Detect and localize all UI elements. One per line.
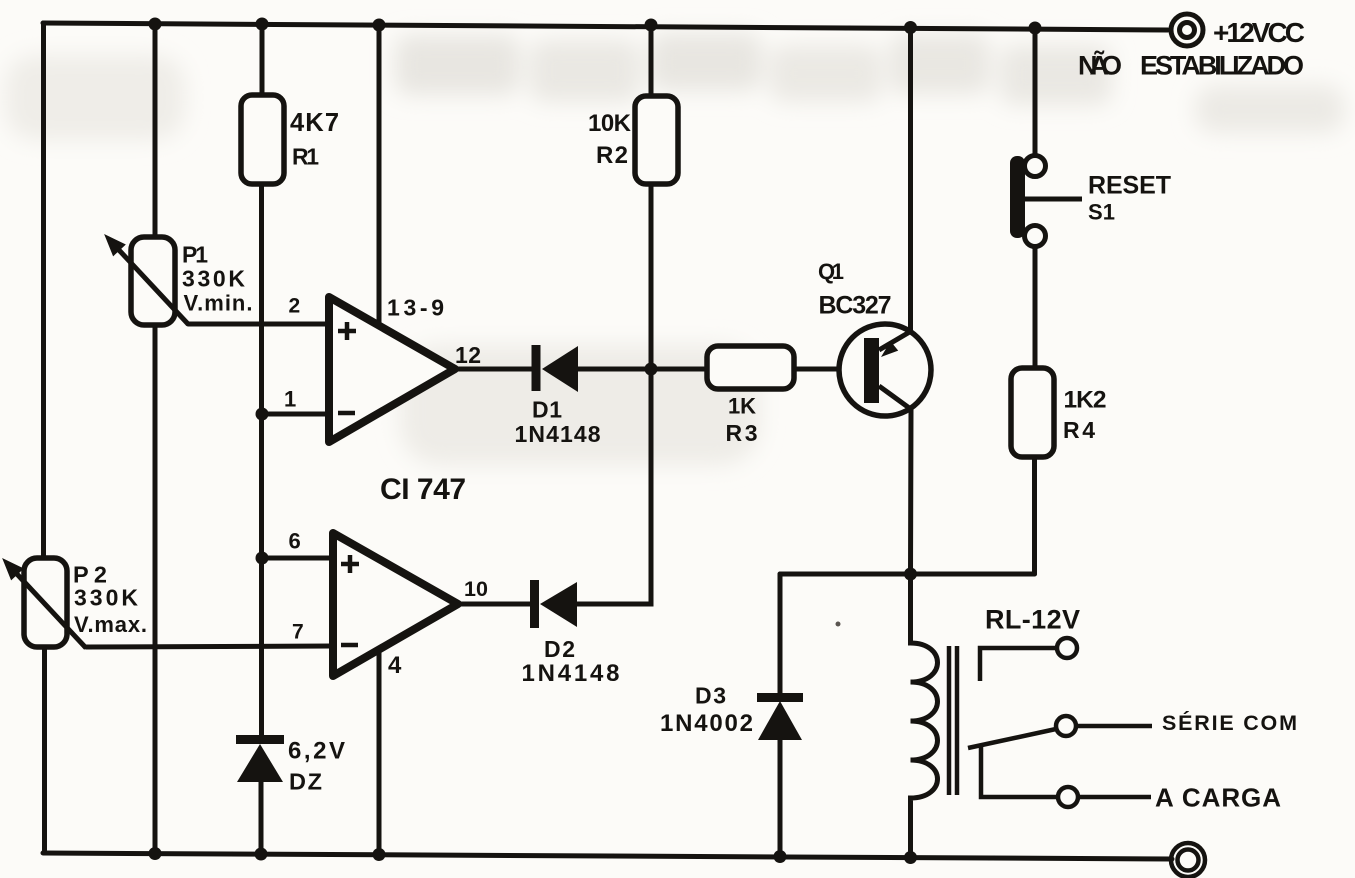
- wire R4 down to relay node row: [1032, 456, 1037, 574]
- node rail-emitter: [904, 21, 917, 34]
- wire P1 column lower segment: [153, 325, 158, 853]
- diode D3 triangle: [758, 701, 802, 740]
- switch S1 RESET pushbutton: [1010, 156, 1082, 247]
- wire D3 to bottom rail: [778, 740, 783, 855]
- wire Q1 emitter column from rail: [908, 27, 913, 332]
- node bottom-P1: [149, 847, 162, 860]
- svg-text:Q1: Q1: [818, 259, 844, 284]
- svg-text:BC327: BC327: [819, 292, 892, 320]
- wire armature pivot stub: [981, 747, 1057, 797]
- wire R1 column: DZ to bottom rail: [259, 781, 264, 854]
- svg-text:ESTABILIZADO: ESTABILIZADO: [1140, 51, 1304, 81]
- svg-text:NÃO: NÃO: [1078, 50, 1122, 81]
- wire switch column rail to S1: [1033, 28, 1038, 157]
- svg-text:1: 1: [284, 387, 296, 412]
- node rail-R2: [645, 19, 658, 32]
- op-amp U1a minus input mark: [338, 411, 355, 416]
- svg-text:V.max.: V.max.: [74, 612, 147, 637]
- zener DZ cathode bar: [236, 735, 284, 744]
- node bottom-DZ: [255, 848, 268, 861]
- svg-text:1K: 1K: [728, 394, 756, 419]
- wire P2 to bottom rail: [42, 646, 47, 853]
- svg-text:6,2V: 6,2V: [288, 738, 345, 765]
- op-amp U1b plus input mark: [341, 555, 359, 573]
- zener DZ triangle: [237, 744, 283, 782]
- svg-text:1N4148: 1N4148: [515, 421, 601, 447]
- wire op-amp U1b output to D2: [456, 602, 534, 607]
- svg-text:6: 6: [289, 529, 301, 554]
- svg-text:DZ: DZ: [289, 769, 322, 795]
- node rail-R1: [256, 18, 269, 31]
- svg-text:330K: 330K: [182, 266, 245, 292]
- wire left vertical from +12V rail down to P2: [41, 23, 46, 559]
- diode D2 triangle: [540, 582, 577, 627]
- resistor R1: [241, 95, 284, 184]
- wire P1 column upper segment: [153, 24, 158, 238]
- wire op-amp pin1 from R1 column: [262, 412, 329, 417]
- node bottom-D3: [774, 850, 787, 863]
- diode D1 cathode bar: [532, 345, 541, 391]
- svg-text:13-9: 13-9: [387, 295, 444, 321]
- terminal ground/return: [1171, 843, 1205, 877]
- diode D1 triangle: [542, 346, 578, 392]
- resistor R4: [1011, 368, 1054, 457]
- node rail-V+: [373, 19, 386, 32]
- svg-text:12: 12: [455, 342, 481, 368]
- wire R1 column: rail to R1: [260, 24, 265, 97]
- svg-text:2: 2: [289, 295, 301, 318]
- wire op-amp pin6 from R1 column: [262, 556, 333, 561]
- svg-text:D3: D3: [695, 683, 726, 709]
- wire bottom rail: [43, 853, 1172, 859]
- potentiometer P1 wiper arrow: [106, 236, 188, 324]
- node bottom-pin4: [373, 848, 386, 861]
- scan speck (decorative): [836, 622, 841, 627]
- op-amp U1a (pins 2,1,12, supply 13-9): [329, 297, 455, 442]
- diode D2 cathode bar: [530, 580, 539, 628]
- wire S1 to R4: [1033, 247, 1038, 369]
- svg-text:4: 4: [388, 652, 402, 679]
- svg-text:R2: R2: [596, 142, 628, 169]
- svg-text:R3: R3: [726, 420, 758, 446]
- transistor Q1 BC327: [839, 324, 931, 416]
- wire relay coil column with coil bumps: [911, 574, 938, 858]
- svg-text:R4: R4: [1063, 417, 1095, 443]
- svg-text:V.min.: V.min.: [184, 291, 253, 316]
- op-amp U1b minus input mark: [341, 643, 358, 648]
- svg-text:D1: D1: [532, 397, 562, 423]
- wire R2 column: rail to R2: [649, 24, 654, 98]
- wire R1 column: R1 to zener DZ: [259, 184, 264, 736]
- svg-text:1K2: 1K2: [1064, 387, 1107, 414]
- svg-text:SÉRIE COM: SÉRIE COM: [1162, 710, 1297, 735]
- op-amp U1b (pins 6,7,10, supply 4): [333, 533, 458, 676]
- wire D2 output corner up to D1 node: [577, 369, 651, 604]
- svg-text:D2: D2: [544, 636, 575, 662]
- svg-text:P1: P1: [182, 242, 208, 268]
- node rail-S1: [1029, 22, 1042, 35]
- node D1-R2-D2: [645, 363, 658, 376]
- wire op-amp U1a V+ stub from rail: [377, 24, 382, 325]
- wire NO contact to A CARGA: [1079, 795, 1151, 800]
- svg-text:10K: 10K: [588, 110, 632, 137]
- node rail-P1: [149, 18, 162, 31]
- relay common contact circle: [1056, 716, 1076, 736]
- svg-text:330K: 330K: [74, 585, 138, 611]
- wire P1 wiper bend to op-amp pin2: [188, 322, 329, 327]
- resistor R3: [707, 346, 794, 389]
- wire R2 column: R2 to node at D1 output: [649, 184, 654, 369]
- svg-text:CI 747: CI 747: [380, 473, 466, 506]
- wire top supply rail: [43, 23, 1168, 30]
- svg-text:R1: R1: [292, 144, 319, 170]
- svg-text:4K7: 4K7: [290, 109, 339, 137]
- svg-text:7: 7: [292, 621, 304, 644]
- op-amp U1a plus input mark: [338, 322, 356, 340]
- relay NO contact circle: [1058, 787, 1078, 807]
- potentiometer P2 wiper arrow: [4, 560, 86, 648]
- resistor R2: [635, 96, 678, 184]
- wire relay node row D3 to R4: [780, 572, 1035, 577]
- wire P2 wiper bend to op-amp pin7: [86, 646, 333, 647]
- relay armature: [968, 729, 1056, 748]
- node collector-R4-D3: [904, 568, 917, 581]
- svg-text:RL-12V: RL-12V: [985, 605, 1080, 635]
- relay coil terminal bracket: [980, 648, 1056, 681]
- potentiometer P1 body: [131, 237, 175, 325]
- wire Q1 collector down to relay node: [908, 409, 914, 574]
- terminal +12V input: [1171, 14, 1203, 46]
- diode D3 cathode bar: [757, 693, 803, 702]
- wire D3 anode stub down from node: [778, 574, 783, 696]
- svg-text:S1: S1: [1088, 200, 1115, 225]
- wire op-amp U1a output to D1: [452, 367, 535, 372]
- wire D1 to R3 with node: [577, 367, 708, 372]
- potentiometer P2 body: [24, 558, 67, 647]
- wire R3 to Q1 base: [793, 367, 866, 372]
- node pin1: [256, 408, 269, 421]
- svg-text:RESET: RESET: [1088, 172, 1171, 200]
- node pin6: [256, 552, 269, 565]
- node bottom-relay: [904, 851, 917, 864]
- relay coil terminal circle: [1057, 638, 1077, 658]
- relay RL-12V core bars: [949, 646, 957, 795]
- svg-text:10: 10: [464, 577, 488, 601]
- wire op-amp U1b pin4 stub to bottom rail: [377, 651, 382, 854]
- svg-text:+12VCC: +12VCC: [1213, 17, 1305, 48]
- wire common contact to SERIE COM: [1077, 724, 1152, 729]
- svg-text:A CARGA: A CARGA: [1155, 783, 1281, 813]
